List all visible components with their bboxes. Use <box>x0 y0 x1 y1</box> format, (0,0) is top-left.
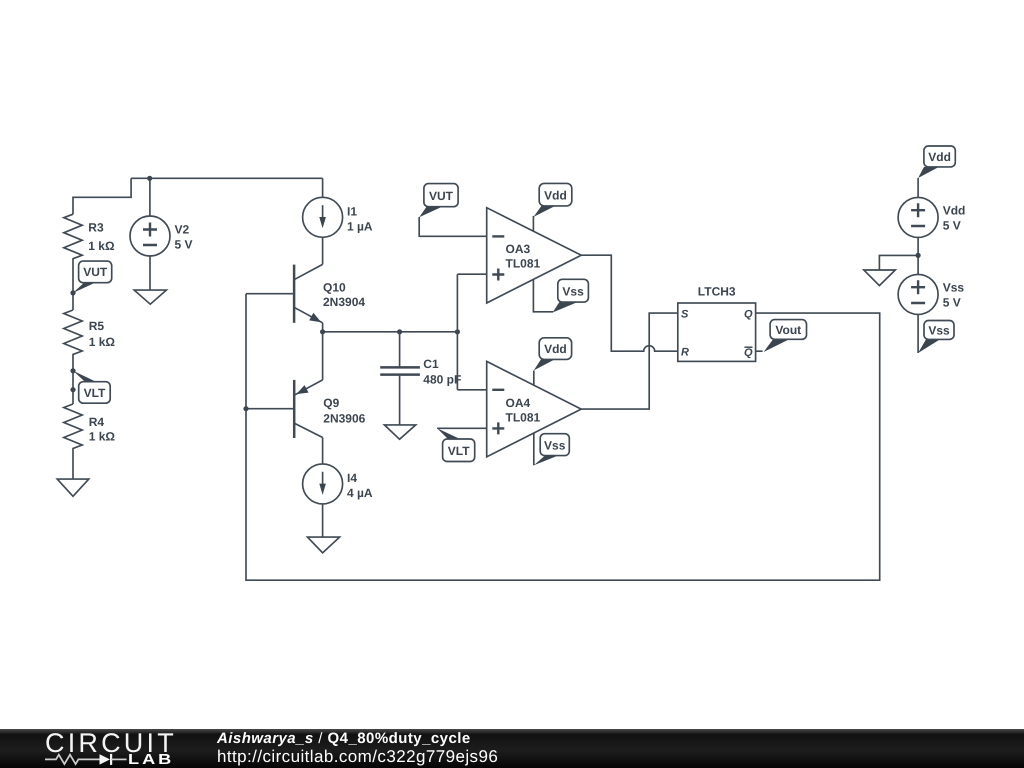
wire Q10 emitter to node <box>322 323 324 332</box>
wire V2 to ground <box>149 256 151 290</box>
net flag Vout <box>764 320 807 352</box>
resistor R3 <box>64 214 115 293</box>
svg-text:480 pF: 480 pF <box>423 373 461 387</box>
svg-text:OA3: OA3 <box>506 242 531 256</box>
wire top-left jog to R3 <box>73 178 131 214</box>
svg-text:Vdd: Vdd <box>943 204 966 218</box>
svg-text:1 kΩ: 1 kΩ <box>88 239 115 253</box>
wire OA4 plus input <box>437 427 487 429</box>
svg-text:VLT: VLT <box>448 444 470 458</box>
wire OA4 output to LTCH3 S <box>581 313 678 409</box>
wire OA3 output to LTCH3 R (with hop) <box>581 255 678 351</box>
op-amp OA4 power stubs <box>533 371 535 386</box>
wire Q10 base <box>246 293 294 295</box>
wire output node rail <box>323 331 458 333</box>
svg-text:VUT: VUT <box>83 265 108 279</box>
wire Q9 base <box>246 408 294 410</box>
svg-text:C1: C1 <box>423 357 439 371</box>
net flag Vss (OA3) <box>553 279 589 312</box>
svg-text:Q: Q <box>744 309 753 321</box>
node VLT junction dots <box>70 368 75 373</box>
voltage source Vss <box>898 274 964 314</box>
wire top rail to I1 <box>322 178 324 197</box>
svg-text:V2: V2 <box>175 223 190 237</box>
net flag Vdd (right) <box>918 146 955 178</box>
op-amp OA4 <box>487 361 582 456</box>
svg-text:Vdd: Vdd <box>544 342 567 356</box>
ground (C1) <box>384 425 415 439</box>
node junction dot mid supplies <box>916 253 921 258</box>
logo resistor-diode glyph <box>0 729 190 768</box>
ground (left chain) <box>57 479 89 496</box>
svg-text:Vss: Vss <box>928 324 950 338</box>
wire Vdd source to Vss source with ground branch <box>879 237 918 274</box>
ground (V2) <box>134 290 166 304</box>
current source I1 <box>303 197 373 237</box>
wire LTCH3 Qbar stub <box>756 350 763 352</box>
svg-text:1 kΩ: 1 kΩ <box>89 335 116 349</box>
wire Vdd flag to Vdd source <box>917 178 919 198</box>
current source I4 <box>303 464 373 504</box>
wire top rail <box>131 177 323 179</box>
voltage source Vdd <box>898 197 965 237</box>
wire I4 to ground <box>322 504 324 537</box>
ground (supply chain) <box>864 270 896 286</box>
op-amp OA3 <box>487 208 582 303</box>
wire OA3 minus input <box>419 217 487 236</box>
svg-text:Vout: Vout <box>775 323 801 337</box>
svg-text:1 µA: 1 µA <box>347 220 373 234</box>
svg-text:VUT: VUT <box>429 189 454 203</box>
svg-text:OA4: OA4 <box>506 396 531 410</box>
svg-text:1 kΩ: 1 kΩ <box>89 430 116 444</box>
wire VLT node <box>72 371 74 404</box>
svg-text:2N3904: 2N3904 <box>323 295 365 309</box>
node A junction dot top rail / V2 <box>147 176 152 181</box>
svg-text:5 V: 5 V <box>943 219 961 233</box>
transistor Q10 <box>294 264 365 322</box>
latch LTCH3 <box>678 284 756 361</box>
svg-text:Vss: Vss <box>943 281 965 295</box>
svg-text:I4: I4 <box>347 471 357 485</box>
svg-text:R3: R3 <box>88 221 104 235</box>
svg-text:4 µA: 4 µA <box>347 486 373 500</box>
svg-text:Vdd: Vdd <box>928 150 951 164</box>
resistor R4 <box>64 404 116 479</box>
node dots on output rail <box>320 329 325 334</box>
svg-text:Q: Q <box>744 347 753 359</box>
node VUT junction dot <box>70 290 75 295</box>
svg-text:R: R <box>681 347 689 359</box>
transistor Q9 <box>294 332 365 438</box>
net flag VLT (OA4) <box>437 428 475 461</box>
svg-text:5 V: 5 V <box>175 238 193 252</box>
net flag Vss (OA4) <box>534 434 570 466</box>
net flag Vdd (OA4) <box>534 338 572 371</box>
wire OA3 plus input / link to OA4 minus <box>457 274 486 390</box>
wire Q9 collector to I4 <box>322 438 324 464</box>
svg-text:Q9: Q9 <box>323 396 339 410</box>
capacitor C1 <box>380 332 461 425</box>
wire V2 tap <box>149 178 151 216</box>
resistor R5 <box>64 310 116 371</box>
net flag VLT (left chain) <box>73 371 110 403</box>
footer title <box>217 730 471 747</box>
net flag VUT (left chain) <box>73 261 112 293</box>
svg-text:Q10: Q10 <box>323 281 346 295</box>
wire feedback LTCH3 Q output loop <box>246 294 880 581</box>
wire VUT node to R5 <box>72 293 74 310</box>
svg-text:R5: R5 <box>89 319 105 333</box>
svg-text:5 V: 5 V <box>943 296 961 310</box>
op-amp OA3 power stubs <box>532 216 534 231</box>
voltage source V2 <box>130 216 193 256</box>
svg-text:VLT: VLT <box>84 386 106 400</box>
net flag Vdd (OA3) <box>534 183 572 217</box>
net flag Vss (right) <box>918 321 954 354</box>
svg-text:S: S <box>681 309 689 321</box>
svg-text:TL081: TL081 <box>506 257 541 271</box>
svg-text:R4: R4 <box>89 415 105 429</box>
node junction dot Q9 base / feedback <box>243 406 248 411</box>
svg-text:Vss: Vss <box>562 284 584 298</box>
svg-text:Vdd: Vdd <box>544 188 567 202</box>
CircuitLab logo wordmark <box>45 728 177 759</box>
wire I1 to Q10 collector <box>322 237 324 264</box>
svg-text:I1: I1 <box>347 205 357 219</box>
footer url <box>217 747 498 767</box>
svg-text:2N3906: 2N3906 <box>323 411 365 425</box>
svg-text:LTCH3: LTCH3 <box>698 284 736 298</box>
ground (I4) <box>308 537 340 553</box>
net flag VUT (OA3) <box>419 184 458 218</box>
svg-text:TL081: TL081 <box>506 411 541 425</box>
wire Vss source to Vss flag <box>917 314 919 353</box>
svg-text:Vss: Vss <box>544 438 566 452</box>
